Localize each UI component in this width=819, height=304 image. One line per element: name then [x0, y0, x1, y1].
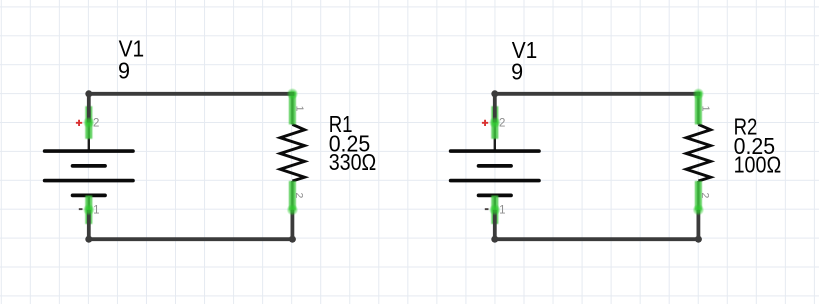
- svg-text:1: 1: [294, 106, 306, 112]
- battery V1 (left): leads and plates: [45, 123, 133, 212]
- junction dot bottom-right (left): [289, 236, 296, 243]
- resistor R2: green pin highlights: [695, 92, 702, 210]
- green endpoint dot: resistor pin 2 (right): [693, 204, 705, 216]
- plus sign (pin 2): [482, 120, 488, 126]
- wire: bottom horizontal net (left): [89, 237, 293, 241]
- long plate (cell 2): [45, 179, 133, 183]
- green endpoint dot: battery pin 2 (right): [489, 117, 501, 129]
- pin 2 leg (dark under green): [291, 181, 293, 210]
- pin 1 leg (dark under green): [291, 94, 293, 125]
- minus sign (pin 1): [485, 208, 489, 210]
- resistor R1: legs and zigzag body: [280, 94, 304, 210]
- battery V1 (right): green pin highlights: [491, 106, 498, 224]
- long plate (positive, cell 1): [45, 149, 133, 153]
- label V1 / 9 (right battery): [511, 37, 537, 84]
- long plate (cell 2): [451, 179, 539, 183]
- long plate (positive, cell 1): [451, 149, 539, 153]
- pin 1 green leg highlight: [289, 92, 296, 125]
- battery V1 (right): polarity marks and pin numbers: [482, 118, 506, 217]
- resistor R1: pin number labels (rotated): [293, 106, 306, 199]
- lead pin2 to top plate: [494, 123, 496, 152]
- short plate (negative, cell 2): [479, 193, 511, 197]
- svg-text:2: 2: [93, 118, 99, 130]
- zigzag body: [686, 124, 710, 181]
- green endpoint dot: battery pin 1 (right): [489, 204, 501, 216]
- svg-text:2: 2: [293, 192, 305, 198]
- pin 2 leg (dark under green): [697, 181, 699, 210]
- resistor R1: green pin highlights: [289, 92, 296, 210]
- svg-text:1: 1: [700, 106, 712, 112]
- wire: top horizontal net (left): [89, 92, 294, 96]
- lead pin2 to top plate: [88, 123, 90, 152]
- battery V1 (left): green pin highlights: [85, 106, 92, 224]
- green endpoint dot: resistor pin 1 at top corner (left): [287, 88, 299, 100]
- battery V1 (right): leads and plates: [451, 123, 539, 212]
- svg-text:9: 9: [118, 57, 130, 83]
- minus sign (pin 1): [79, 208, 83, 210]
- pin 1 leg (dark under green): [697, 94, 699, 125]
- pin 2 green leg highlight: [85, 106, 92, 139]
- wire: vertical, battery pin 1 to bottom corner (right): [493, 210, 497, 239]
- svg-text:330Ω: 330Ω: [329, 149, 377, 175]
- label R1 / 0.25 / 330ohm: [329, 111, 377, 175]
- lead bottom plate to pin1: [494, 196, 496, 212]
- label V1 / 9 (left battery): [118, 36, 144, 84]
- lead bottom plate to pin1: [88, 196, 90, 212]
- green endpoint dot: battery pin 2 (left): [83, 117, 95, 129]
- pin 1 green leg highlight: [85, 196, 92, 225]
- plus sign (pin 2): [76, 120, 82, 126]
- svg-text:9: 9: [511, 58, 523, 84]
- svg-text:1: 1: [499, 205, 505, 217]
- resistor R2: pin number labels (rotated): [699, 106, 712, 199]
- green endpoint dot: resistor pin 1 at top corner (right): [693, 88, 705, 100]
- wire: vertical, top corner to battery pin 2 (right): [493, 94, 497, 123]
- svg-text:100Ω: 100Ω: [734, 152, 782, 178]
- green endpoint dot: resistor pin 2 (left): [287, 204, 299, 216]
- wire: bottom horizontal net (right): [495, 237, 699, 241]
- svg-text:1: 1: [93, 205, 99, 217]
- short plate (cell 1): [479, 164, 511, 168]
- junction dot top-left (right): [491, 90, 498, 97]
- label R2 / 0.25 / 100ohm: [734, 113, 782, 177]
- wire: vertical, resistor pin 2 to bottom corner (right): [697, 210, 701, 239]
- battery V1 (left): polarity marks and pin numbers: [76, 118, 100, 217]
- junction dot bottom-left (right): [491, 236, 498, 243]
- green endpoint dot: battery pin 1 (left): [83, 204, 95, 216]
- junction dot bottom-left (left): [85, 236, 92, 243]
- zigzag body: [280, 124, 304, 181]
- pin 2 green leg highlight: [695, 181, 702, 210]
- junction dot top-left (left): [85, 90, 92, 97]
- pin 1 green leg highlight: [695, 92, 702, 125]
- wire: vertical, resistor pin 2 to bottom corner (left): [290, 210, 294, 239]
- short plate (negative, cell 2): [73, 193, 105, 197]
- wire: vertical, battery pin 1 to bottom corner (left): [87, 210, 91, 239]
- wire: top horizontal net (right): [495, 92, 701, 96]
- pin 2 green leg highlight: [491, 106, 498, 139]
- pin 2 green leg highlight: [289, 181, 296, 210]
- wire: vertical, top corner to battery pin 2 (left): [87, 94, 91, 123]
- pin 1 green leg highlight: [491, 196, 498, 225]
- short plate (cell 1): [73, 164, 105, 168]
- svg-text:2: 2: [699, 192, 711, 198]
- junction dot bottom-right (right): [695, 236, 702, 243]
- resistor R2: legs and zigzag body: [686, 94, 710, 210]
- svg-text:2: 2: [499, 118, 505, 130]
